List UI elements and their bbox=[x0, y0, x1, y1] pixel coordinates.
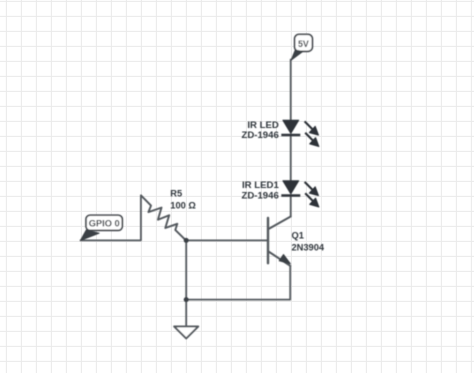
wire node A down to node B bbox=[185, 240, 187, 299]
wire emitter to node B bbox=[186, 266, 290, 300]
wire node A to Q1 base bbox=[186, 239, 267, 241]
wire 5V to LED1 anode bbox=[290, 60, 292, 121]
wire LED2 cathode to Q1 collector bbox=[290, 196, 292, 217]
svg-text:R5: R5 bbox=[170, 189, 182, 199]
wire LED1 cathode to LED2 anode bbox=[290, 135, 292, 181]
junction node A bbox=[184, 238, 189, 243]
svg-text:Q1: Q1 bbox=[292, 230, 304, 240]
svg-text:100 Ω: 100 Ω bbox=[170, 200, 196, 210]
svg-text:2N3904: 2N3904 bbox=[292, 242, 325, 252]
ground bbox=[174, 326, 198, 338]
io label GPIO 0 bbox=[80, 215, 122, 240]
svg-text:ZD-1946: ZD-1946 bbox=[241, 190, 278, 201]
transistor Q1 bbox=[268, 217, 291, 266]
power label 5V bbox=[291, 34, 313, 60]
LED D2 emission arrow 1 bbox=[305, 182, 319, 196]
wire node B to ground bbox=[185, 300, 187, 327]
LED D2 emission arrow 2 bbox=[305, 193, 319, 207]
resistor R5 bbox=[141, 195, 186, 240]
svg-text:GPIO 0: GPIO 0 bbox=[89, 219, 120, 229]
svg-text:ZD-1946: ZD-1946 bbox=[241, 130, 278, 141]
svg-text:5V: 5V bbox=[298, 39, 309, 49]
LED D2 IR LED1 bbox=[281, 181, 300, 196]
wire GPIO to resistor lead bbox=[81, 195, 141, 240]
LED D1 emission arrow 2 bbox=[305, 133, 319, 147]
Q1 emitter arrowhead bbox=[279, 255, 290, 264]
LED D1 IR LED bbox=[281, 120, 300, 135]
junction node B bbox=[184, 297, 189, 302]
LED D1 emission arrow 1 bbox=[305, 121, 319, 135]
